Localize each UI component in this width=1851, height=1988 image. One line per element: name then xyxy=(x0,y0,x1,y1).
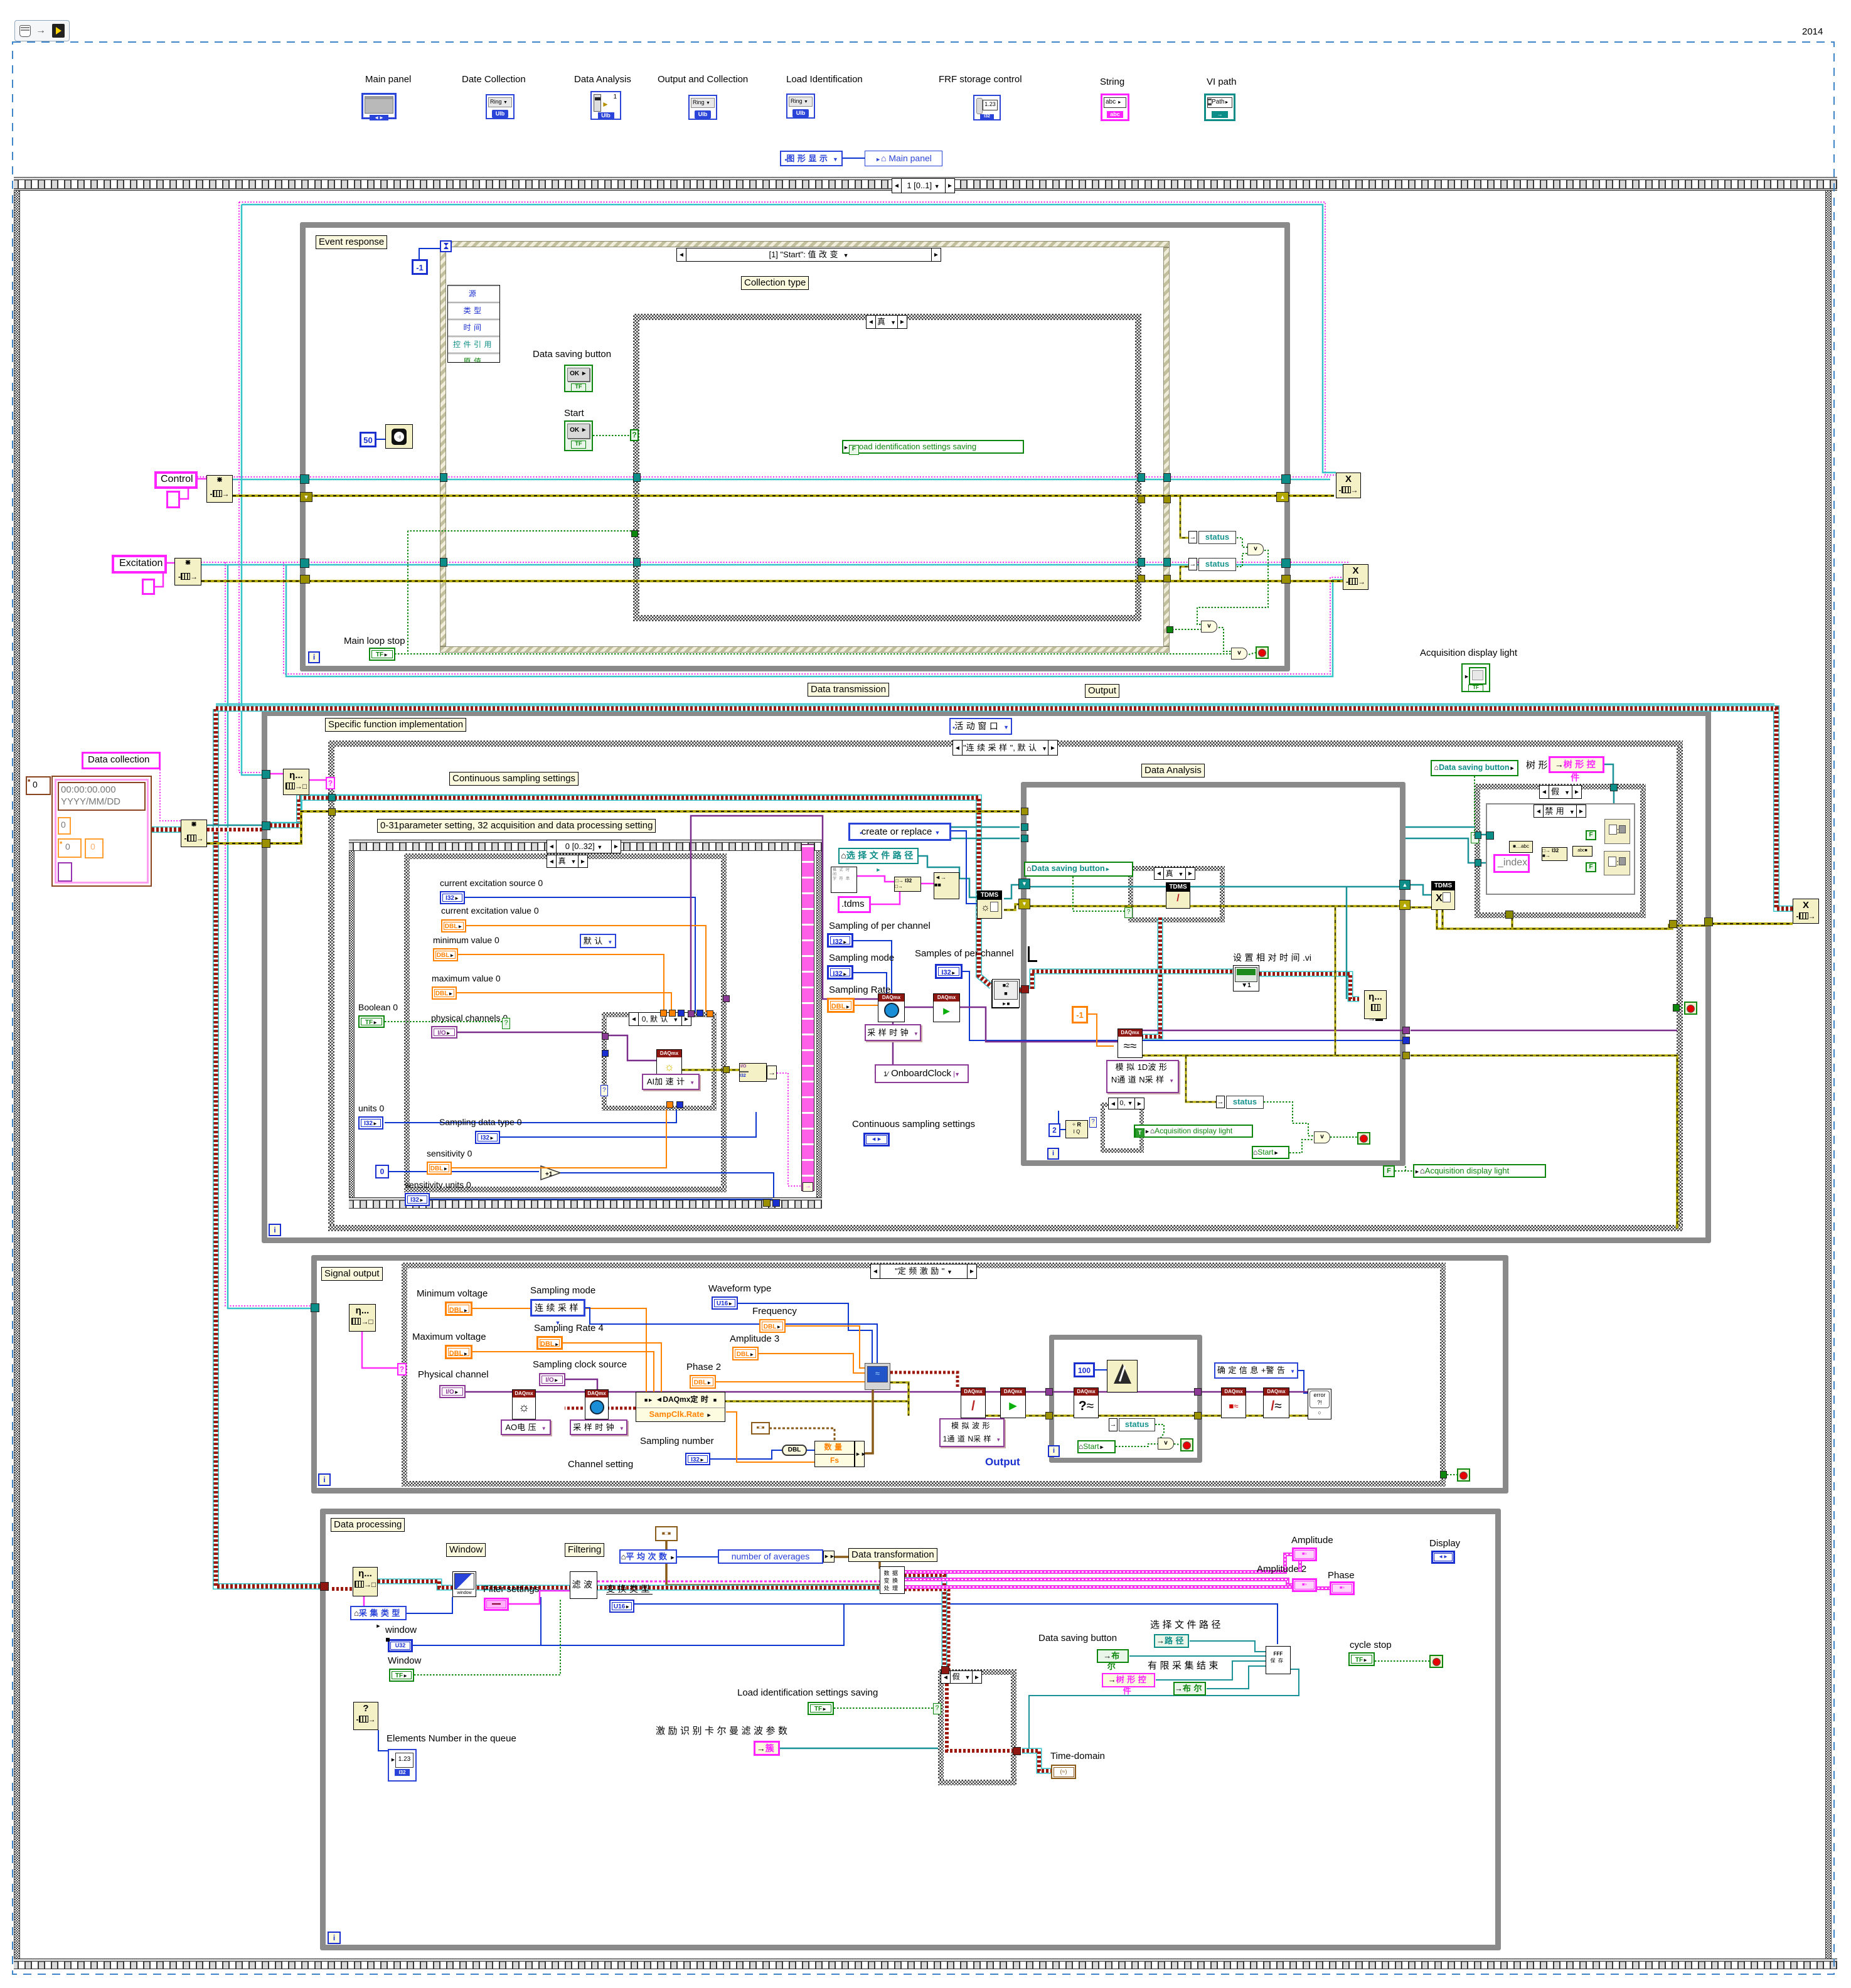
while loop: Data processing xyxy=(320,1509,1501,1950)
case selector <span class="cj">真</span> xyxy=(866,315,907,329)
constant 100 xyxy=(1074,1362,1095,1377)
label Specific function implementation xyxy=(325,718,466,732)
shift register olive left xyxy=(300,492,312,502)
local variable <span class="cj">平均次数</span> xyxy=(619,1549,677,1564)
wire green cycle stop xyxy=(1375,1660,1429,1662)
label Data transformation xyxy=(848,1548,937,1562)
iteration i xyxy=(308,651,320,663)
local variable Start (signal) xyxy=(1077,1440,1116,1453)
wire candy from write express right xyxy=(1019,987,1029,993)
wire: olive queue Excitation xyxy=(201,580,1343,582)
wire: olive queue Control xyxy=(233,494,1334,497)
bundle <span class="cj">数量</span>/Fs xyxy=(814,1441,855,1467)
label physical channels 0 xyxy=(431,1013,508,1023)
label cycle stop xyxy=(1350,1640,1392,1650)
disable structure <span class="cj">禁用</span> xyxy=(1486,803,1635,895)
local variable <span class="cj">选择文件路径</span> xyxy=(838,848,919,864)
selector <span class="cj">定频激励</span> xyxy=(870,1264,977,1279)
wire: pink dashed to auto-index tunnel xyxy=(777,1073,801,1186)
tunnels loop right border xyxy=(1281,474,1291,484)
green ? tunnel for boolean xyxy=(502,1018,510,1029)
TDMS write icon xyxy=(1166,882,1190,909)
terminal DBL sampling rate xyxy=(827,998,855,1013)
local variable <span class="cj">树形控件</span> (dp) xyxy=(1102,1673,1155,1687)
for loop frame 0..32 xyxy=(349,840,822,851)
local variable Start (DA) xyxy=(1252,1146,1289,1159)
release queue icon (right) xyxy=(1793,899,1819,924)
wire brown from cluster const xyxy=(666,1541,880,1585)
str to path icon tree xyxy=(1572,846,1592,857)
label <span class="cj">设置相对时间</span>.vi xyxy=(1233,953,1311,963)
icon Data Analysis xyxy=(574,74,631,85)
tunnels DA left xyxy=(1021,808,1028,815)
label Sampling mode xyxy=(829,953,894,963)
label Window 2 xyxy=(388,1655,421,1666)
wire candy error from spec loop down xyxy=(565,1407,636,1410)
local variable Acquisition display light (in case) xyxy=(1134,1125,1253,1138)
wire candy into dequeue D and out xyxy=(332,1587,353,1591)
wires signal gen inputs xyxy=(585,1308,877,1364)
status indicator signal xyxy=(1109,1418,1118,1431)
terminal DBL frequency xyxy=(759,1319,786,1333)
wire: pink+cyan below event loop xyxy=(284,562,1343,674)
indicator 1.23 queue elements xyxy=(388,1749,417,1782)
wires window section xyxy=(406,1597,452,1613)
label Boolean 0 xyxy=(358,1002,398,1012)
DAQmx start icon (signal) xyxy=(1000,1387,1026,1418)
terminal I32 sampling per channel xyxy=(827,933,853,948)
wires green DA stop xyxy=(1264,1102,1314,1136)
icon String xyxy=(1100,77,1124,87)
wire: boolean Start to case selector xyxy=(593,435,633,436)
nav box Main panel xyxy=(865,151,942,166)
label Physical channel xyxy=(418,1369,489,1380)
or gate 1 xyxy=(1247,543,1264,555)
auto-index pink column xyxy=(801,844,814,1191)
label Phase 2 xyxy=(686,1362,721,1372)
wires sampling to DAQmx timing xyxy=(853,941,892,993)
label Sampling clock source xyxy=(533,1359,627,1370)
wire: pink+cyan rectangle left down to spec loop xyxy=(239,202,264,772)
wire candy around to DAQmx read xyxy=(1259,974,1359,999)
wire olive in DA xyxy=(1030,905,1400,907)
icon FRF storage control xyxy=(939,74,1022,85)
label maximum value 0 xyxy=(432,973,501,983)
wire pink dequeue D xyxy=(364,1596,406,1611)
dropdown AO<span class="cj">电压</span> xyxy=(501,1419,551,1435)
selector <span class="cj">真</span> TDMS xyxy=(1154,867,1195,880)
wire green load ident to case xyxy=(834,1707,934,1709)
terminal cluster filter settings xyxy=(484,1598,509,1611)
label Sampling Rate xyxy=(829,985,890,995)
window VI icon xyxy=(452,1571,476,1597)
red LED signal inner xyxy=(1180,1438,1193,1451)
wire green to signal loop LED xyxy=(1447,1474,1457,1475)
concat strings icon xyxy=(934,872,959,899)
wire: excitation pink wavy xyxy=(155,573,163,587)
local variable <span class="cj">路径</span> xyxy=(1154,1634,1189,1648)
label <span class="cj">变换类型</span> xyxy=(606,1584,653,1594)
or gate 3 xyxy=(1231,648,1247,660)
DAQmx create channel (AO) xyxy=(512,1389,536,1419)
label Continuous sampling settings 2 xyxy=(852,1119,975,1130)
DAQmx stop icon xyxy=(1221,1387,1246,1418)
shift register olive left xyxy=(1018,899,1030,909)
tunnels on event structure border xyxy=(440,473,447,482)
tunnel DP loop candy xyxy=(320,1582,329,1591)
icon VI path xyxy=(1207,77,1237,87)
for loop selector xyxy=(547,840,621,853)
terminal I/O clock source xyxy=(539,1373,565,1386)
control number of averages xyxy=(718,1549,823,1564)
terminal I32 sampling number xyxy=(685,1453,710,1465)
increment icon xyxy=(539,1164,563,1180)
Control element box xyxy=(166,491,180,508)
iteration i data processing xyxy=(328,1932,341,1944)
terminal DBL sampling rate 4 xyxy=(536,1336,563,1350)
case structure (true) inside event xyxy=(633,314,1141,320)
wire: candy branch top to spec loop xyxy=(216,708,1793,909)
selector <span class="cj">假</span> xyxy=(1539,785,1582,799)
tunnel case dp top xyxy=(941,1666,949,1674)
label Sampling of per channel xyxy=(829,921,931,931)
label Load identification settings saving (dp) xyxy=(737,1687,878,1698)
wires olive signal chain xyxy=(636,1400,909,1403)
DAQmx create virtual channel icon xyxy=(656,1049,682,1078)
tunnels case left xyxy=(328,794,336,801)
tunnel spec loop right olive xyxy=(1669,920,1677,928)
wire purple from read xyxy=(1140,1030,1403,1032)
DAQmx timing icon xyxy=(878,993,905,1022)
case structure <span class="cj">连续采样</span> xyxy=(328,740,1683,747)
wires pink tree xyxy=(1533,847,1542,852)
inner while loop (signal) xyxy=(1049,1335,1202,1463)
tunnels inner loop purple/olive xyxy=(1045,1388,1053,1396)
while loop: Data Analysis xyxy=(1021,782,1406,1166)
wire purple I/O clock xyxy=(565,1379,597,1389)
terminal I32 sampling data type xyxy=(475,1131,500,1144)
label Acquisition display light xyxy=(1420,648,1517,658)
case structure <span class="cj">定频激励</span> xyxy=(402,1263,1446,1268)
wire blue queue count xyxy=(378,1730,388,1751)
data collection cluster xyxy=(51,776,152,887)
wire: Excitation pair down to signal loop xyxy=(225,562,312,1306)
wire brown Fs xyxy=(865,1389,873,1453)
selector 0,<span class="cj">默认</span> xyxy=(629,1012,691,1026)
constant F + local Acquisition display light (below DA) xyxy=(1383,1165,1395,1177)
tunnels DA right xyxy=(1399,880,1411,890)
label Output blue xyxy=(985,1456,1020,1468)
metronome icon xyxy=(1107,1360,1138,1392)
terminal I32 units xyxy=(358,1116,383,1130)
release queue icon X1 xyxy=(1336,473,1361,498)
obtain queue icon (Control) xyxy=(206,475,233,503)
I/O to I32 converter icon xyxy=(739,1063,767,1082)
wire: pink+cyan rectangle top xyxy=(239,202,1336,475)
wire: Excitation queue refnum (pink+cyan) xyxy=(201,562,1349,563)
tunnel case bottom olive xyxy=(1505,911,1513,919)
wire candy pair into dp case xyxy=(904,1575,944,1669)
wire candy to queue status xyxy=(1032,971,1233,989)
icon Date Collection xyxy=(462,74,526,85)
wire blue 确定 to error handler xyxy=(1298,1371,1308,1393)
enqueue icon (data collection) xyxy=(181,820,207,847)
terminal waveform Time-domain xyxy=(1051,1765,1076,1779)
iteration i DA xyxy=(1047,1148,1059,1160)
OK button terminal: Data saving button xyxy=(564,365,593,392)
F constant 1 xyxy=(1586,830,1596,840)
label <span class="cj">选择文件路径</span> (dp) xyxy=(1150,1620,1224,1630)
dropdown <span class="cj">模拟波形</span>1<span class="cj">通道</span>N<span class="cj">采样</span> xyxy=(939,1418,1005,1447)
local variable <span class="cj">布尔</span> xyxy=(1097,1649,1129,1663)
icon Load Identification xyxy=(786,74,863,85)
terminal U32 window xyxy=(388,1639,413,1652)
tunnels on event loop left border xyxy=(300,474,309,484)
label window (lower) xyxy=(385,1625,417,1635)
red LED DA xyxy=(1357,1132,1370,1145)
terminal Acquisition display light xyxy=(1461,663,1490,692)
? terminal TDMS case xyxy=(1124,907,1133,918)
wire olive case bottom to right xyxy=(1512,917,1669,929)
label Main loop stop xyxy=(344,636,405,646)
label Signal output xyxy=(321,1267,383,1281)
label Samples of per channel xyxy=(915,948,1014,959)
label Channel setting xyxy=(568,1459,633,1470)
case ? terminal signal xyxy=(397,1363,407,1376)
case selector <span class="cj">连续采样</span> <span class="cj">默认</span> xyxy=(952,740,1058,756)
label Filtering xyxy=(565,1543,604,1557)
wire olive tdms err xyxy=(1004,904,1023,910)
wire candy down from TDMS case xyxy=(1140,917,1160,1037)
terminal I/O physical channel xyxy=(439,1385,466,1398)
terminal DBL amplitude 3 xyxy=(732,1347,759,1360)
DAQmx clear icon xyxy=(1263,1387,1289,1418)
wire: pink dequeue to ? xyxy=(270,773,283,775)
auto index exit tunnel xyxy=(803,1182,813,1192)
svg-text:+1: +1 xyxy=(545,1171,553,1178)
local variable: Load identification settings saving xyxy=(842,440,1024,454)
wire: candy from dequeue B across case xyxy=(270,798,991,986)
TDMS close icon xyxy=(1431,881,1455,910)
? terminal case dp xyxy=(933,1703,941,1714)
label Output (top) xyxy=(1085,684,1119,698)
constant -1 xyxy=(412,259,428,275)
FRF save icon xyxy=(1266,1646,1291,1674)
wire: I/O purple to inner case xyxy=(457,1032,602,1034)
DAQmx timing (signal) xyxy=(585,1389,609,1419)
label Continuous sampling settings xyxy=(449,772,579,786)
terminal I32 excitation source xyxy=(440,891,465,904)
dropdown <span class="cj">采样时钟</span> xyxy=(865,1024,921,1041)
terminal I/O physical channels xyxy=(431,1026,457,1039)
toolbar box xyxy=(14,20,70,41)
case selector <span class="cj">真</span> (for loop) xyxy=(547,855,588,868)
label Window xyxy=(446,1543,486,1557)
wire teal tdms in DA xyxy=(1030,886,1400,888)
label Amplitude 3 xyxy=(730,1333,779,1344)
label Data collection xyxy=(82,752,161,769)
terminal Main loop stop TF xyxy=(369,648,395,661)
icon <span class="cj">数据变换处理</span> xyxy=(880,1566,905,1594)
event data node xyxy=(447,285,500,363)
wire blue 2 to quotient xyxy=(1060,1129,1065,1130)
wires green signal stop xyxy=(1155,1424,1164,1442)
terminal I32 samples per channel xyxy=(935,964,963,979)
tunnels event right: olive xyxy=(1138,496,1145,503)
case ? terminal pink xyxy=(326,777,335,789)
wire teal tree to case xyxy=(1604,764,1613,784)
small case 0 frame xyxy=(1101,1103,1144,1107)
wire: green stop net xyxy=(395,653,1231,655)
event structure frame xyxy=(440,241,1170,247)
label Elements Number in the queue xyxy=(387,1733,516,1744)
wires orange voltages xyxy=(472,1308,646,1392)
cluster numeric 0 c xyxy=(85,838,104,858)
case true frame in for loop xyxy=(404,853,727,859)
constant 2 xyxy=(1048,1123,1060,1137)
dequeue icon C xyxy=(349,1304,376,1332)
wire: olive from enqueue xyxy=(207,842,264,845)
terminal Phase xyxy=(1330,1581,1355,1595)
cluster numeric 0 b with spinner xyxy=(58,838,82,858)
simple error handler icon xyxy=(1308,1389,1331,1419)
terminal DBL sensitivity xyxy=(427,1162,452,1175)
label units 0 xyxy=(358,1103,384,1113)
red tunnel xyxy=(1021,985,1029,993)
dequeue icon D xyxy=(353,1567,378,1596)
dropdown <span class="cj">连续采样</span> xyxy=(530,1299,585,1317)
local variable Data saving button (top right) xyxy=(1431,760,1518,776)
terminal U16 waveform type xyxy=(712,1296,738,1310)
question tunnel xyxy=(600,1085,608,1096)
label Data saving button xyxy=(533,349,611,360)
label Data processing xyxy=(331,1518,405,1532)
Excitation element box xyxy=(142,579,155,595)
wire: teal+candy from enqueue to spec loop tunnels xyxy=(207,825,264,826)
terminal DBL max xyxy=(432,986,457,1000)
label Minimum voltage xyxy=(417,1288,488,1299)
red LED signal loop xyxy=(1440,1471,1447,1478)
wires purple signal chain xyxy=(465,1391,1308,1393)
selector <span class="cj">禁用</span> xyxy=(1534,804,1586,818)
wire 100 to metronome xyxy=(1095,1369,1107,1371)
terminal Excitation xyxy=(112,555,167,574)
write waveform express icon xyxy=(991,980,1019,1008)
numeric 0 control (queue size) xyxy=(26,776,51,795)
inner case 0,<span class="cj">默认</span> xyxy=(602,1012,717,1017)
dropdown <span class="cj">采样时钟</span> (signal) xyxy=(570,1419,627,1435)
constant 50 xyxy=(360,432,376,447)
DBL coercion badge xyxy=(782,1445,807,1456)
label Data transmission xyxy=(808,683,889,697)
wire -1 to daqmx read xyxy=(1088,1014,1114,1046)
wire olive DA right down xyxy=(1406,907,1708,929)
basic function generator icon xyxy=(865,1363,890,1390)
DAQmx start icon xyxy=(933,993,960,1022)
dropdown <span class="cj">活动窗口</span> xyxy=(949,718,1012,735)
file delete icon 1 xyxy=(1604,819,1630,844)
path to string icon xyxy=(1509,841,1533,853)
wire olive to status xyxy=(1186,1055,1216,1102)
text 2014 xyxy=(1802,26,1823,37)
tunnels for loop bottom xyxy=(763,1199,771,1207)
label Sampling mode (signal) xyxy=(530,1285,595,1296)
selector 0, xyxy=(1108,1098,1144,1109)
wire green data saving to tree case xyxy=(1472,776,1475,836)
status indicator 1 xyxy=(1188,531,1197,543)
label Data Analysis xyxy=(1141,764,1205,778)
terminal DBL phase 2 xyxy=(690,1375,716,1389)
wire: 0 to increment to tunnel xyxy=(389,1171,539,1172)
cluster numeric 0 a xyxy=(58,817,71,835)
dropdown <span class="cj">图形显示</span> xyxy=(780,151,843,166)
samples->read icon xyxy=(992,979,1020,1008)
terminal DBL min voltage xyxy=(445,1301,472,1316)
label 0-31parameter setting 32 acquisition xyxy=(377,819,656,833)
timestamp display xyxy=(58,782,146,811)
type cast icon small xyxy=(751,1422,770,1435)
local variable <span class="cj">布尔</span> 2 xyxy=(1173,1682,1206,1696)
label current excitation source 0 xyxy=(440,878,543,888)
cluster constant [908] xyxy=(655,1526,678,1541)
status indicator DA xyxy=(1216,1096,1225,1108)
terminal TF boolean0 xyxy=(358,1015,385,1028)
hourglass timeout terminal xyxy=(440,240,452,252)
selector <span class="cj">假</span> dp xyxy=(941,1670,982,1684)
set relative time icon xyxy=(1233,965,1259,991)
terminal Display xyxy=(1431,1551,1455,1564)
wire: olive across case xyxy=(270,811,1020,843)
loop stop LED xyxy=(1256,646,1269,659)
label current excitation value 0 xyxy=(441,906,539,916)
tunnel signal loop left xyxy=(311,1303,319,1312)
flush queue icon xyxy=(353,1702,378,1730)
terminal Amplitude 2 xyxy=(1292,1578,1317,1592)
label Waveform type xyxy=(708,1283,771,1294)
terminal I32 sensitivity units xyxy=(405,1193,430,1206)
wires teal into FRF save xyxy=(1190,1641,1266,1652)
wire green data saving to case xyxy=(1073,877,1126,911)
case structure <span class="cj">假</span> (dp) xyxy=(938,1669,1016,1675)
dropdown OnboardClock xyxy=(875,1064,969,1083)
label <span class="cj">树形</span> xyxy=(1526,760,1550,771)
terminal I32 sampling mode xyxy=(827,965,853,980)
terminal continuous sampling xyxy=(863,1133,890,1146)
dropdown <span class="cj">默认</span> xyxy=(580,934,616,948)
terminal U16 transform type xyxy=(609,1600,634,1613)
wires pink to FRF save xyxy=(1298,1561,1302,1572)
label Data saving button (dp) xyxy=(1038,1633,1117,1643)
status indicator 2 xyxy=(1188,558,1197,570)
label Start xyxy=(564,408,584,419)
number to string icon xyxy=(894,877,921,892)
format date/time icon xyxy=(831,867,857,893)
terminal TF cycle stop xyxy=(1348,1652,1375,1666)
wire yellow from TDMS close down xyxy=(1441,909,1444,929)
terminal Control xyxy=(154,471,198,489)
wire pink dequeue C to case xyxy=(362,1332,397,1368)
spec loop stop LED xyxy=(1673,1004,1680,1012)
labels Amplitude / Amplitude 2 / Phase / Display xyxy=(1291,1535,1333,1546)
wire blue averages xyxy=(677,1556,718,1558)
? terminal tree case xyxy=(1471,832,1479,843)
label Time-domain xyxy=(1050,1751,1105,1761)
DAQmx is task done icon xyxy=(1074,1387,1099,1418)
wire: 50 to wait xyxy=(376,439,385,440)
or gate DA xyxy=(1314,1131,1330,1143)
dequeue icon B xyxy=(283,769,309,795)
constant -1 (DA) xyxy=(1072,1006,1088,1023)
